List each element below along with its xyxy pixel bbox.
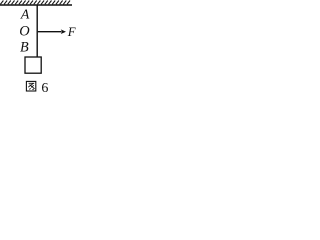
- svg-text:A: A: [20, 7, 30, 22]
- force F arrowhead: [61, 29, 66, 34]
- svg-text:F: F: [67, 25, 76, 39]
- ceiling hatching: [0, 1, 70, 5]
- svg-text:B: B: [20, 39, 29, 55]
- force F arrow shaft: [38, 31, 62, 33]
- box (hanging block B): [25, 57, 41, 73]
- svg-text:O: O: [19, 24, 30, 40]
- svg-text:6: 6: [41, 81, 48, 96]
- wire rope A-O-B: [36, 5, 38, 57]
- caption character 图: [26, 81, 35, 91]
- ceiling line: [0, 4, 72, 6]
